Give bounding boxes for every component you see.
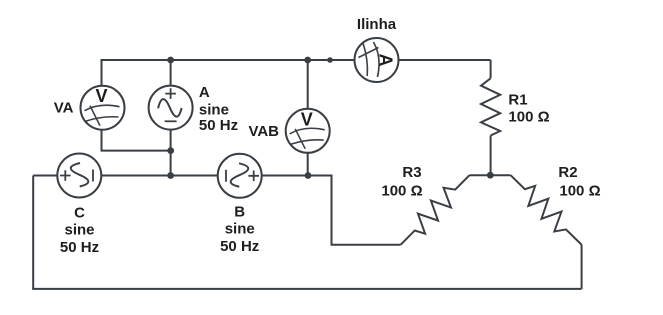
svg-text:sine: sine xyxy=(199,102,229,119)
junction phase node B xyxy=(305,172,312,179)
wire source A bottom stub xyxy=(170,107,172,176)
junction node A top xyxy=(167,57,174,64)
svg-text:100 Ω: 100 Ω xyxy=(381,183,422,200)
svg-text:VA: VA xyxy=(54,100,74,117)
junction node VAB top xyxy=(304,57,311,64)
source B xyxy=(218,154,262,198)
svg-text:50 Hz: 50 Hz xyxy=(199,117,238,134)
source C xyxy=(57,154,101,198)
voltmeter VAB xyxy=(286,109,330,153)
wire bottom rail xyxy=(32,288,581,290)
junction VA bottom xyxy=(167,147,174,154)
svg-text:A: A xyxy=(376,54,396,67)
resistor R2 zigzag xyxy=(504,168,588,251)
svg-text:C: C xyxy=(74,205,85,222)
svg-text:sine: sine xyxy=(64,222,94,239)
wire VA top stub xyxy=(101,59,103,107)
svg-text:100 Ω: 100 Ω xyxy=(508,109,549,126)
svg-text:VAB: VAB xyxy=(248,123,279,140)
source A xyxy=(149,86,193,130)
svg-text:V: V xyxy=(301,109,313,129)
wire R1 bottom stub xyxy=(490,136,492,176)
junction phase node A xyxy=(167,172,174,179)
svg-text:V: V xyxy=(95,86,107,106)
resistor R1 zigzag xyxy=(481,78,500,135)
svg-text:A: A xyxy=(199,84,210,101)
svg-text:R3: R3 xyxy=(402,164,421,181)
voltmeter VA xyxy=(81,86,125,130)
wire right riser to R2 xyxy=(581,245,583,289)
svg-text:Ilinha: Ilinha xyxy=(357,16,397,33)
wire R1 top stub xyxy=(490,60,492,78)
svg-text:R1: R1 xyxy=(508,92,527,109)
ammeter Ilinha xyxy=(355,38,399,82)
svg-text:100 Ω: 100 Ω xyxy=(559,183,600,200)
wire source A top stub xyxy=(170,60,172,107)
svg-text:50 Hz: 50 Hz xyxy=(60,239,99,256)
resistor R3 zigzag xyxy=(394,168,476,251)
junction dot ammeter left xyxy=(327,57,333,63)
wire delta top vertex xyxy=(470,174,511,176)
wire VAB top stub xyxy=(307,60,309,176)
junction delta top xyxy=(487,172,494,179)
svg-text:50 Hz: 50 Hz xyxy=(220,238,259,255)
wire phase line C-B y=175.5 xyxy=(33,175,331,177)
svg-text:sine: sine xyxy=(225,221,255,238)
svg-text:R2: R2 xyxy=(558,164,577,181)
wire VA bottom to node xyxy=(102,107,171,151)
wire left drop xyxy=(32,176,34,289)
wire top rail y=60 from VA corner to R1 corner xyxy=(102,59,491,61)
wire B corner to R3 foot xyxy=(332,175,401,245)
svg-text:B: B xyxy=(234,204,245,221)
